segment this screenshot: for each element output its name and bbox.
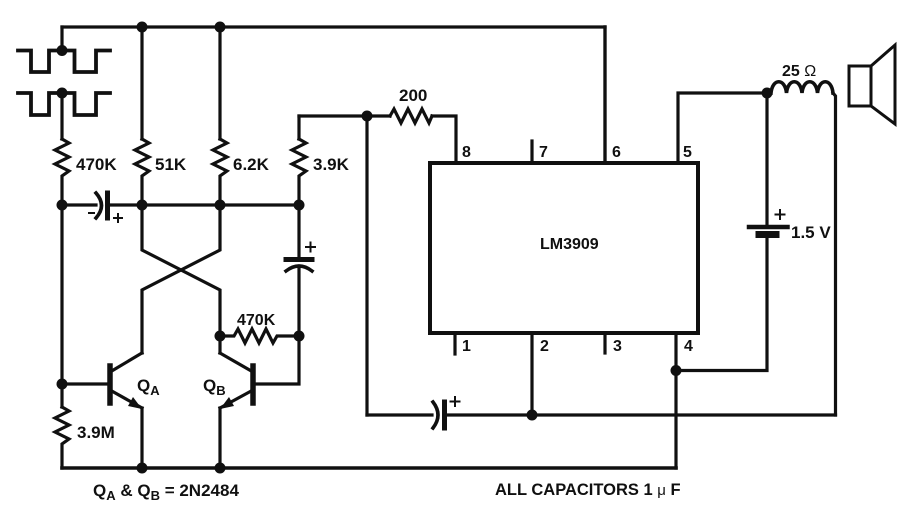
svg-text:470K: 470K xyxy=(237,312,276,329)
capacitor C3 curved plate xyxy=(433,402,438,428)
node bottom rail dots xyxy=(137,463,226,474)
resistor R 3.9K xyxy=(292,139,306,205)
capacitor C3 bar plate xyxy=(442,402,447,428)
node 200 left dot xyxy=(362,111,373,122)
wire QB collector column xyxy=(218,336,221,353)
battery BT1 short plate xyxy=(759,231,776,238)
wire bottom rail xyxy=(62,466,676,470)
waveform squarewave A xyxy=(18,51,110,73)
svg-text:QB: QB xyxy=(203,376,226,398)
resistor R 470K left xyxy=(55,139,69,205)
wire y415 bottom node line xyxy=(367,413,432,416)
transistor Q_A emitter arrow xyxy=(128,397,142,409)
svg-text:1: 1 xyxy=(462,338,471,355)
svg-text:ALL CAPACITORS 1 μ F: ALL CAPACITORS 1 μ F xyxy=(495,481,681,499)
wire QA emitter to rail xyxy=(140,408,143,468)
transistor Q_B collector lead xyxy=(220,353,253,372)
transistor Q_B base bar xyxy=(250,366,256,403)
svg-text:200: 200 xyxy=(399,86,427,105)
resistor R 3.9M xyxy=(55,407,69,468)
svg-text:3: 3 xyxy=(613,338,622,355)
waveform squarewave B xyxy=(18,93,110,115)
transistor Q_A emitter lead xyxy=(110,390,142,408)
wire QA base xyxy=(62,382,110,385)
capacitor C1 minus sign xyxy=(89,212,94,214)
node coil battery dot xyxy=(762,88,773,99)
battery BT1 long plate xyxy=(749,225,788,230)
wire pin6 drop from rail xyxy=(603,27,606,163)
transistor Q_B emitter lead xyxy=(220,390,253,408)
speaker LS1 frame xyxy=(849,66,871,106)
resistor R 470K right xyxy=(220,329,299,343)
svg-text:1.5 V: 1.5 V xyxy=(791,223,831,242)
resistor R 6.2K xyxy=(213,139,227,205)
transistor Q_B emitter arrow xyxy=(220,397,234,409)
pin 5 wire xyxy=(678,93,767,163)
wire 51K column from rail xyxy=(140,27,143,139)
wire cross right-to-left (6.2K to QA collector) xyxy=(142,205,220,353)
svg-text:3.9M: 3.9M xyxy=(77,423,115,442)
svg-text:51K: 51K xyxy=(155,155,187,174)
resistor R 200 xyxy=(390,109,432,123)
svg-text:6: 6 xyxy=(612,144,621,161)
wire y415 right part xyxy=(445,413,836,416)
wire QB emitter to rail xyxy=(218,408,221,468)
node rail 51K dot xyxy=(137,22,148,33)
svg-text:6.2K: 6.2K xyxy=(233,155,270,174)
wire top supply rail xyxy=(62,25,605,28)
pin 7 stub xyxy=(530,141,533,163)
pin 3 stub xyxy=(603,333,606,353)
battery BT1 plus sign xyxy=(776,210,785,219)
capacitor C2 curved plate xyxy=(286,266,312,271)
wire node line y205 right xyxy=(108,203,300,206)
node waveform A dot xyxy=(57,45,68,56)
wire QB base column xyxy=(253,336,299,384)
node rail 6.2K dot xyxy=(215,22,226,33)
svg-text:7: 7 xyxy=(539,144,548,161)
capacitor C2 wire to 470K xyxy=(297,269,300,336)
node QA base dot xyxy=(57,379,68,390)
pin 2 wire xyxy=(530,333,533,415)
svg-text:3.9K: 3.9K xyxy=(313,155,350,174)
wire y116 from 3.9K to 200 xyxy=(299,114,390,117)
svg-text:5: 5 xyxy=(683,144,692,161)
svg-text:8: 8 xyxy=(462,144,471,161)
capacitor C2 plus sign xyxy=(306,243,315,252)
wire waveform B to resistor 470K xyxy=(60,93,63,139)
svg-text:25 Ω: 25 Ω xyxy=(782,63,816,80)
capacitor C2 bar plate xyxy=(286,257,312,262)
wire coil right down xyxy=(833,93,836,415)
svg-text:LM3909: LM3909 xyxy=(540,236,599,253)
svg-text:QA: QA xyxy=(137,376,160,398)
wire battery top to coil node xyxy=(765,93,768,227)
pin 6 wire xyxy=(603,27,606,163)
wire node vertical x367 xyxy=(365,116,368,415)
wire 3.9K top corner xyxy=(297,116,300,139)
capacitor C1 plus sign xyxy=(114,214,122,222)
node 470K right dots xyxy=(215,331,305,342)
wire battery return xyxy=(676,236,767,371)
capacitor C1 curved plate xyxy=(96,193,102,218)
wire 6.2K column from rail xyxy=(218,27,221,139)
inductor L1 speaker coil 25ohm xyxy=(771,82,833,93)
speaker LS1 cone xyxy=(871,45,895,124)
node pin2 cap dot xyxy=(527,410,538,421)
pin 1 stub xyxy=(453,333,456,354)
IC U1 LM3909 box xyxy=(430,163,698,333)
node waveform B dot xyxy=(57,88,68,99)
svg-text:4: 4 xyxy=(684,338,693,355)
wire 200 to pin8 xyxy=(432,116,456,163)
wire node line y205 left xyxy=(62,203,96,206)
wire cross left-to-right (51K to QB collector) xyxy=(142,205,220,336)
capacitor C1 bar plate xyxy=(105,193,110,218)
wire left column to 3.9M xyxy=(60,205,63,407)
svg-text:2: 2 xyxy=(540,338,549,355)
node y205 dots xyxy=(57,200,305,211)
capacitor C2 wire from node to plate xyxy=(297,205,300,257)
resistor R 51K xyxy=(135,139,149,205)
transistor Q_A collector lead xyxy=(110,353,142,372)
transistor Q_A base bar xyxy=(107,366,113,403)
pin 4 wire xyxy=(674,333,677,468)
wire waveform drop from rail xyxy=(60,27,63,50)
svg-text:QA & QB = 2N2484: QA & QB = 2N2484 xyxy=(93,481,239,503)
svg-text:470K: 470K xyxy=(76,155,117,174)
node pin4 battery dot xyxy=(671,365,682,376)
capacitor C3 plus sign xyxy=(451,397,460,406)
